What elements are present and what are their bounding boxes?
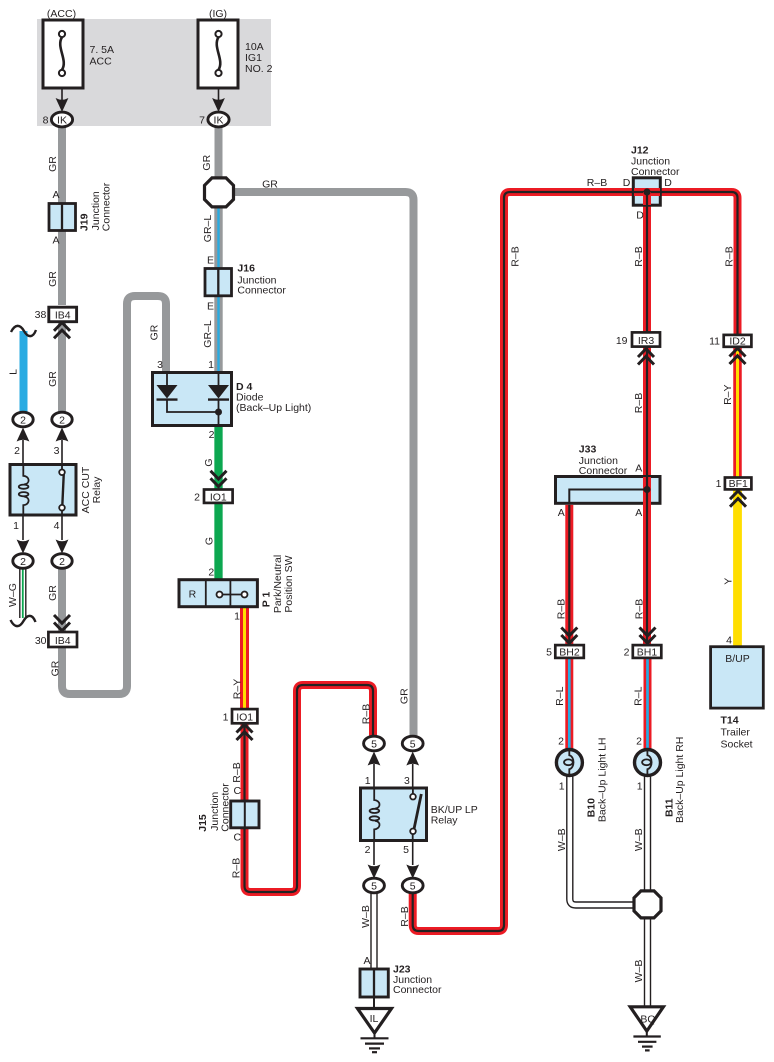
- svg-text:R–B: R–B: [633, 393, 645, 413]
- svg-text:2: 2: [208, 567, 214, 579]
- svg-text:R–B: R–B: [724, 246, 736, 266]
- svg-text:2: 2: [365, 844, 371, 856]
- svg-text:1: 1: [716, 478, 722, 490]
- svg-text:A: A: [558, 507, 565, 519]
- svg-text:30: 30: [35, 635, 47, 647]
- svg-text:J19: J19: [79, 213, 91, 231]
- wire W-B bulb B11 to splice: [644, 776, 651, 900]
- connector 7 IK: [199, 112, 229, 127]
- svg-text:7. 5A: 7. 5A: [90, 44, 115, 56]
- svg-text:R–B: R–B: [633, 246, 645, 266]
- connector oval 5 left bottom: [364, 878, 385, 893]
- J12 junction dot: [643, 188, 650, 195]
- wire R-Y ID2 to BF1: [733, 346, 742, 478]
- svg-text:W–B: W–B: [633, 960, 645, 983]
- svg-text:5: 5: [403, 844, 409, 856]
- svg-text:A: A: [363, 955, 370, 967]
- lead arrow up to oval2 left: [17, 428, 30, 466]
- diode D4 back-up light: [153, 373, 312, 426]
- connector 2 BH1: [624, 645, 662, 658]
- svg-text:A: A: [52, 189, 59, 201]
- switch P1 park/neutral position: [179, 555, 295, 613]
- svg-text:BF1: BF1: [729, 478, 748, 490]
- connector 19 IR3: [616, 332, 660, 346]
- svg-text:IB4: IB4: [55, 310, 71, 322]
- svg-text:Connector: Connector: [237, 285, 286, 297]
- lead arrow up from relay pin1: [368, 752, 381, 790]
- svg-text:B/UP: B/UP: [725, 653, 750, 665]
- svg-text:11: 11: [709, 335, 720, 347]
- wire break tilde bottom of W-G: [11, 616, 36, 626]
- svg-text:GR: GR: [47, 156, 59, 172]
- svg-text:C: C: [234, 785, 242, 797]
- fuse IG lead arrow: [212, 88, 225, 112]
- svg-text:G: G: [204, 537, 216, 545]
- chevron up below IO1-1: [237, 724, 253, 740]
- svg-text:2: 2: [14, 445, 20, 457]
- svg-text:2: 2: [20, 556, 26, 568]
- wire R-B relay pin5 up to J12: [413, 192, 634, 931]
- fuse ACC 7.5A: [43, 8, 114, 88]
- wire R-B J12 right to ID2: [659, 192, 738, 336]
- chevron up below ID2: [730, 348, 746, 364]
- svg-text:W–B: W–B: [633, 828, 645, 851]
- svg-text:IK: IK: [214, 115, 224, 127]
- svg-text:2: 2: [636, 735, 642, 747]
- lead arrow up from relay pin3: [406, 752, 419, 790]
- svg-text:1: 1: [559, 781, 565, 793]
- lead J23 to ground: [373, 997, 375, 1009]
- svg-text:W–G: W–G: [7, 583, 19, 607]
- connector oval 2 right above relay: [52, 412, 72, 427]
- lead arrow down from pin1: [17, 515, 30, 554]
- svg-text:4: 4: [54, 520, 60, 532]
- svg-text:GR–L: GR–L: [202, 215, 214, 243]
- svg-text:R: R: [189, 589, 197, 601]
- relay BK/UP LP: [361, 788, 478, 841]
- connector 5 BH2: [546, 645, 584, 658]
- svg-text:5: 5: [371, 739, 377, 751]
- wire R-B J33 to BH2: [565, 505, 573, 646]
- svg-text:GR: GR: [262, 179, 278, 191]
- wire GR-L octagon to J16: [214, 200, 222, 270]
- chevron down above BH2: [561, 628, 577, 644]
- junction connector J12: [631, 145, 680, 206]
- fuse panel background: [37, 19, 271, 126]
- svg-text:D: D: [664, 177, 672, 189]
- junction connector J19: [49, 182, 113, 231]
- chevron up below BF1: [730, 491, 746, 507]
- svg-text:IO1: IO1: [210, 492, 227, 504]
- svg-text:A: A: [52, 235, 59, 247]
- svg-text:5: 5: [371, 881, 377, 893]
- lead arrow down from relay pin5: [406, 841, 419, 879]
- svg-text:(Back–Up Light): (Back–Up Light): [236, 402, 311, 414]
- svg-text:D: D: [636, 210, 644, 222]
- bulb B11 back-up light RH: [635, 737, 687, 823]
- svg-text:BQ: BQ: [640, 1014, 655, 1026]
- wire G D4 pin2 to IO1: [214, 425, 222, 491]
- chevron down above IO1-2: [211, 471, 227, 487]
- connector 38 IB4: [35, 307, 77, 322]
- lead arrow down from relay pin2: [368, 841, 381, 879]
- svg-text:BH2: BH2: [559, 646, 580, 658]
- chevron down above BH1: [640, 628, 656, 644]
- wire R-Y P1 pin1 to IO1: [240, 606, 249, 710]
- svg-text:R–Y: R–Y: [232, 679, 244, 699]
- fuse IG 10A: [198, 8, 273, 88]
- ground BQ: [630, 1007, 663, 1051]
- svg-text:A: A: [635, 463, 642, 475]
- svg-text:8: 8: [43, 115, 49, 127]
- svg-text:2: 2: [20, 415, 26, 427]
- J33 labels: [579, 443, 628, 477]
- connector 11 ID2: [709, 335, 751, 347]
- J33 junction dot: [644, 486, 651, 493]
- svg-text:5: 5: [410, 881, 416, 893]
- svg-text:J12: J12: [631, 145, 649, 157]
- svg-text:Position SW: Position SW: [283, 555, 295, 612]
- svg-text:1: 1: [208, 359, 214, 371]
- wire W-B bulb B10 to splice: [570, 776, 640, 905]
- svg-text:Trailer: Trailer: [721, 726, 751, 738]
- bulb B10 back-up light LH: [556, 737, 608, 822]
- ground IL: [358, 1009, 392, 1053]
- connector 8 IK: [43, 112, 73, 127]
- svg-text:GR–L: GR–L: [202, 320, 214, 348]
- svg-text:Back–Up Light RH: Back–Up Light RH: [674, 737, 686, 823]
- svg-text:GR: GR: [47, 585, 59, 601]
- svg-text:R–B: R–B: [231, 858, 243, 878]
- wire GR oval2 to IB4-30: [58, 567, 66, 633]
- svg-text:IL: IL: [370, 1013, 379, 1025]
- svg-text:IR3: IR3: [638, 335, 655, 347]
- svg-text:E: E: [207, 301, 214, 313]
- svg-text:J16: J16: [237, 263, 255, 275]
- wire W-G oval2 to break: [19, 567, 26, 618]
- svg-text:Relay: Relay: [91, 476, 103, 504]
- svg-text:(IG): (IG): [209, 8, 227, 20]
- wire Y BF1 to B-UP socket: [733, 489, 742, 648]
- connector oval 5 right bottom: [402, 878, 423, 893]
- svg-text:Connector: Connector: [579, 465, 628, 477]
- junction connector J15: [197, 783, 259, 832]
- splice octagon middle: [205, 178, 234, 207]
- wire break tilde top of L wire: [11, 326, 36, 336]
- svg-text:2: 2: [59, 415, 65, 427]
- svg-text:1: 1: [223, 712, 229, 724]
- wire R-B visible through J12: [634, 192, 660, 205]
- svg-text:Connector: Connector: [219, 783, 231, 832]
- svg-text:W–B: W–B: [556, 828, 568, 851]
- wire GR IB4-30 loop up to D4 pin3: [62, 296, 166, 694]
- connector 30 IB4: [35, 632, 77, 647]
- svg-text:2: 2: [209, 429, 215, 441]
- svg-text:IK: IK: [57, 115, 67, 127]
- svg-text:IO1: IO1: [236, 712, 253, 724]
- wire R-L BH1 to bulb B11: [644, 657, 652, 752]
- svg-text:(ACC): (ACC): [47, 8, 76, 20]
- wire GR octagon right branch to oval5: [230, 192, 414, 738]
- svg-text:R–L: R–L: [554, 686, 566, 705]
- junction connector J23: [360, 964, 442, 998]
- chevron up below IB4-38: [54, 323, 70, 339]
- wire R-B through J33 to BH1: [643, 477, 651, 646]
- svg-text:R–B: R–B: [510, 246, 522, 266]
- svg-text:3: 3: [404, 775, 410, 787]
- chevron down above IB4-30: [54, 615, 70, 631]
- svg-text:J15: J15: [197, 814, 209, 832]
- svg-text:L: L: [8, 369, 20, 375]
- svg-text:R–Y: R–Y: [722, 384, 734, 404]
- svg-text:Connector: Connector: [631, 166, 680, 178]
- svg-text:Connector: Connector: [101, 182, 113, 231]
- svg-text:1: 1: [637, 781, 643, 793]
- svg-text:2: 2: [59, 556, 65, 568]
- wire GR J19 to IB4-38: [58, 230, 66, 305]
- svg-text:J33: J33: [579, 443, 597, 455]
- svg-text:Back–Up Light LH: Back–Up Light LH: [596, 737, 608, 822]
- connector oval 2 left below relay: [13, 554, 33, 569]
- svg-text:G: G: [203, 458, 215, 466]
- svg-text:2: 2: [558, 735, 564, 747]
- lead arrow down from pin4: [56, 515, 69, 554]
- wire R-B J12 down to IR3: [643, 195, 651, 333]
- svg-text:A: A: [635, 507, 642, 519]
- svg-text:R–B: R–B: [633, 599, 645, 619]
- wire GR fuse8 to J19: [58, 126, 66, 204]
- svg-text:BH1: BH1: [637, 646, 658, 658]
- svg-text:Y: Y: [723, 578, 735, 585]
- svg-text:R–B: R–B: [361, 704, 373, 724]
- wire W-B splice to ground BQ: [644, 910, 651, 1008]
- svg-text:GR: GR: [47, 371, 59, 387]
- svg-text:5: 5: [546, 646, 552, 658]
- svg-text:GR: GR: [399, 688, 411, 704]
- svg-text:R–L: R–L: [632, 686, 644, 705]
- svg-text:R–B: R–B: [587, 177, 607, 189]
- svg-text:2: 2: [624, 646, 630, 658]
- trailer socket T14 B/UP: [711, 647, 764, 751]
- svg-text:7: 7: [199, 115, 205, 127]
- relay ACC CUT: [10, 465, 103, 516]
- svg-text:GR: GR: [149, 324, 161, 340]
- wire GR-L J16 to D4 pin1: [214, 294, 222, 374]
- svg-text:Socket: Socket: [721, 739, 753, 751]
- svg-text:2: 2: [194, 492, 200, 504]
- connector 1 BF1: [716, 478, 752, 490]
- svg-text:1: 1: [234, 611, 240, 623]
- chevron up below IR3: [638, 349, 654, 365]
- svg-text:38: 38: [35, 309, 47, 321]
- svg-text:W–B: W–B: [360, 905, 372, 928]
- svg-text:19: 19: [616, 335, 628, 347]
- wire GR IB4-38 to oval2: [58, 319, 66, 413]
- wire G IO1 to P1 pin2: [214, 501, 222, 581]
- wire W-B relay pin2 to J23: [370, 892, 377, 970]
- svg-text:Connector: Connector: [393, 984, 442, 996]
- connector 1 IO1: [223, 709, 258, 723]
- svg-text:4: 4: [726, 635, 732, 647]
- connector oval 5 left top: [364, 736, 385, 751]
- svg-text:C: C: [234, 832, 242, 844]
- wire GR fuse7 to octagon: [215, 126, 223, 182]
- svg-text:IB4: IB4: [55, 635, 71, 647]
- svg-text:3: 3: [54, 445, 60, 457]
- svg-text:GR: GR: [201, 154, 213, 170]
- connector oval 2 right below relay: [52, 554, 72, 569]
- svg-text:D: D: [623, 177, 631, 189]
- svg-text:Relay: Relay: [431, 814, 459, 826]
- svg-text:GR: GR: [50, 660, 62, 676]
- svg-text:3: 3: [157, 359, 163, 371]
- svg-text:R–B: R–B: [555, 599, 567, 619]
- connector 2 IO1: [194, 490, 232, 504]
- svg-text:T14: T14: [721, 714, 739, 726]
- svg-text:NO. 2: NO. 2: [245, 63, 273, 75]
- svg-text:P 1: P 1: [261, 592, 273, 608]
- fuse ACC lead arrow: [56, 88, 69, 112]
- wire L blue to oval2: [20, 331, 28, 413]
- svg-text:R–B: R–B: [399, 906, 411, 926]
- junction connector J16: [205, 263, 286, 297]
- wire R-B IO1 via J15 loop to oval5: [245, 685, 374, 892]
- J33 internal bus: [569, 490, 647, 505]
- svg-text:GR: GR: [47, 271, 59, 287]
- connector oval 5 right top: [402, 736, 423, 751]
- svg-text:R–B: R–B: [231, 762, 243, 782]
- svg-text:1: 1: [13, 520, 19, 532]
- splice octagon bottom: [634, 891, 661, 918]
- svg-text:5: 5: [410, 739, 416, 751]
- svg-text:ACC: ACC: [90, 56, 113, 68]
- svg-text:1: 1: [365, 775, 371, 787]
- svg-text:E: E: [207, 255, 214, 267]
- wire R-B IR3 to J33 (continues through J33 below): [643, 346, 651, 477]
- connector oval 2 left above relay: [13, 412, 33, 427]
- lead arrow up to oval2 right: [56, 428, 69, 466]
- svg-text:ID2: ID2: [729, 335, 746, 347]
- J33 junction connector box: [556, 477, 661, 504]
- wire R-L BH2 to bulb B10: [565, 657, 573, 752]
